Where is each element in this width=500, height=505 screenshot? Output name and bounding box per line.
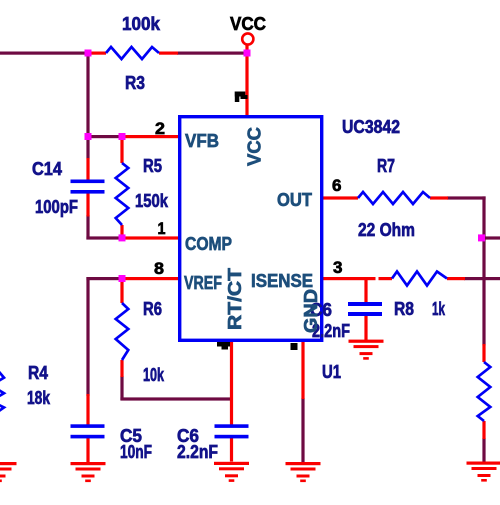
wire pin8 VREF lead <box>122 277 178 280</box>
wire pin3 lead segment 2 <box>379 277 393 280</box>
resistor R6 <box>116 303 129 360</box>
op-amp U1 UC3842 IC body <box>180 117 322 341</box>
resistor R3 <box>106 47 159 59</box>
svg-text:UC3842: UC3842 <box>342 117 400 137</box>
ground C5 <box>71 462 106 482</box>
svg-text:3: 3 <box>333 258 343 277</box>
svg-text:150k: 150k <box>135 191 169 211</box>
wire C14 bottom lead <box>86 194 89 217</box>
node junction VFB R5 <box>119 133 126 140</box>
wire C14 top lead <box>86 158 89 181</box>
svg-text:ISENSE: ISENSE <box>251 270 313 291</box>
node junction COMP <box>119 234 126 241</box>
svg-text:10k: 10k <box>143 365 165 385</box>
wire R7 right lead <box>430 196 448 199</box>
resistor R9 right <box>478 362 491 421</box>
wire pin5 GND lead <box>301 341 304 399</box>
pin number 4 partial <box>217 342 230 350</box>
svg-text:COMP: COMP <box>185 233 232 254</box>
wire R9 bottom lead <box>482 421 485 439</box>
wire R6 top lead <box>120 279 123 303</box>
svg-text:VREF: VREF <box>184 272 222 293</box>
wire R6 to RT/CT <box>120 397 232 400</box>
wire VREF down to C5 <box>86 277 89 396</box>
svg-text:VFB: VFB <box>185 130 219 151</box>
wire R7 right to corner <box>447 196 486 199</box>
svg-text:VCC: VCC <box>230 14 266 34</box>
svg-text:U1: U1 <box>322 362 341 382</box>
svg-text:R5: R5 <box>143 156 162 176</box>
wire vertical VFB net <box>86 52 89 159</box>
wire C6 bottom lead <box>364 316 367 341</box>
pin number 7 <box>235 92 248 103</box>
svg-text:1: 1 <box>158 219 166 238</box>
capacitor C6 <box>348 302 382 316</box>
wire R8 right lead <box>447 277 465 280</box>
ground C6 <box>349 340 384 360</box>
svg-text:R8: R8 <box>394 299 414 319</box>
resistor R4 left edge <box>0 370 4 412</box>
wire C6 top lead <box>364 279 367 303</box>
wire GND pin5 lower <box>301 398 304 463</box>
svg-text:2: 2 <box>155 119 165 138</box>
svg-text:2.2nF: 2.2nF <box>177 442 218 462</box>
node junction VCC <box>244 50 251 57</box>
wire C14 bottom to COMP corner <box>86 215 89 240</box>
wire VREF row <box>86 277 123 280</box>
node junction VREF <box>119 275 126 282</box>
svg-text:6: 6 <box>332 176 342 195</box>
ground left edge <box>0 462 17 482</box>
svg-text:18k: 18k <box>27 388 51 408</box>
ground C7 <box>214 462 249 482</box>
wire R3 left lead <box>88 52 106 55</box>
svg-text:R4: R4 <box>28 363 48 383</box>
wire pin3 ISENSE lead <box>322 277 376 280</box>
wire pin2 VFB lead <box>122 135 178 138</box>
svg-text:8: 8 <box>154 259 164 278</box>
wire right vertical net <box>482 196 485 345</box>
node junction right <box>478 234 485 241</box>
wire C7 bottom lead <box>230 438 233 462</box>
wire node to right edge <box>482 236 500 239</box>
wire R6 bottom segment <box>120 376 123 400</box>
wire pin7 VCC lead <box>245 45 248 116</box>
wire pin4 RT/CT lead <box>230 341 233 425</box>
svg-text:VCC: VCC <box>244 127 265 166</box>
wire R5 bottom lead <box>120 225 123 239</box>
svg-text:R3: R3 <box>125 73 145 93</box>
resistor R8 <box>392 272 447 286</box>
pin number 5 partial <box>291 343 298 350</box>
wire R8 right to edge <box>464 277 500 280</box>
capacitor C7 <box>215 424 249 438</box>
power VCC terminal <box>242 33 253 44</box>
wire R9 top lead <box>482 344 485 362</box>
svg-text:100k: 100k <box>122 14 161 34</box>
svg-text:1k: 1k <box>432 299 446 319</box>
svg-text:R7: R7 <box>377 156 395 176</box>
svg-text:C14: C14 <box>32 159 62 179</box>
wire C5 top lead <box>86 394 89 425</box>
svg-text:22 Ohm: 22 Ohm <box>358 220 415 240</box>
resistor R5 <box>116 163 129 225</box>
ground R9 <box>467 462 500 482</box>
svg-text:100pF: 100pF <box>35 197 78 217</box>
wire pin6 OUT lead <box>322 196 358 199</box>
wire pin1 COMP lead <box>122 236 178 239</box>
node junction top-left <box>85 50 92 57</box>
capacitor C5 <box>71 424 105 438</box>
wire R5 top lead <box>120 137 123 163</box>
wire VFB row to R5 <box>86 135 123 138</box>
capacitor C14 <box>71 180 105 194</box>
svg-text:10nF: 10nF <box>120 442 152 462</box>
svg-text:R6: R6 <box>143 299 162 319</box>
wire R3 to VCC node <box>177 52 246 55</box>
wire C5 bottom lead <box>86 438 89 463</box>
node junction VFB left <box>85 133 92 140</box>
svg-text:RT/CT: RT/CT <box>224 267 245 330</box>
svg-text:OUT: OUT <box>277 189 313 210</box>
wire R6 lower lead <box>120 360 123 377</box>
wire COMP row <box>86 236 123 239</box>
svg-text:GND: GND <box>300 289 321 333</box>
resistor R7 <box>358 192 430 204</box>
ground pin5 <box>286 462 321 482</box>
wire R9 bottom to ground <box>482 438 485 463</box>
wire top net from left edge to node <box>0 52 89 55</box>
wire R3 right lead <box>159 52 178 55</box>
